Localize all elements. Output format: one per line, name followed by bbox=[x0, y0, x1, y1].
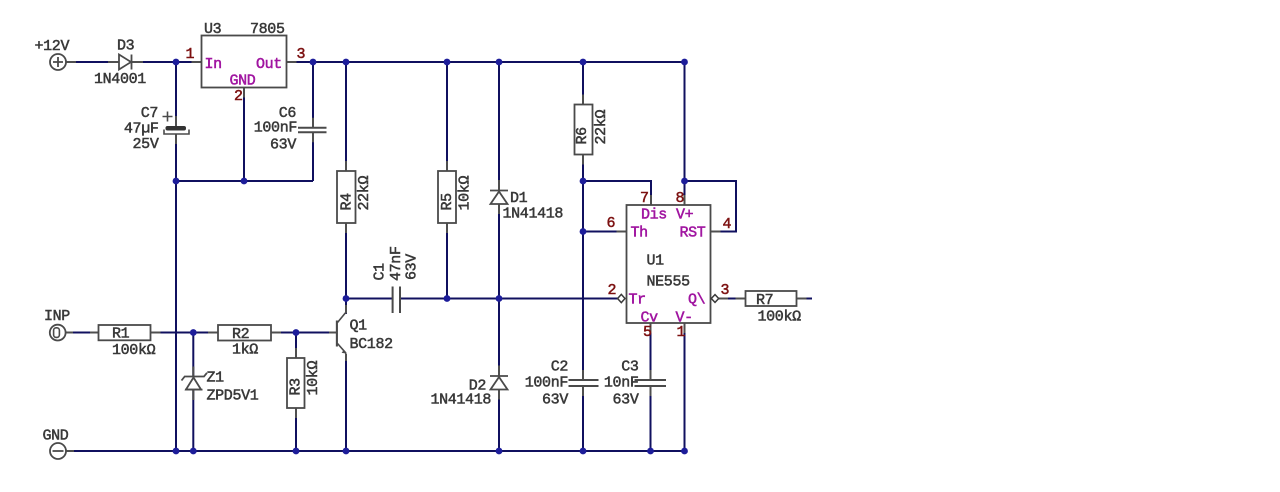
junction R3 base line bbox=[293, 329, 300, 336]
gray component pin stubs bbox=[66, 62, 807, 451]
svg-text:7805: 7805 bbox=[250, 21, 285, 38]
svg-text:25V: 25V bbox=[133, 136, 159, 153]
svg-text:8: 8 bbox=[676, 190, 685, 207]
capacitor C3 bbox=[635, 380, 667, 386]
wire R2 to Q1 base bbox=[271, 332, 337, 334]
svg-text:10nF: 10nF bbox=[604, 374, 639, 391]
wire Dis connection bbox=[583, 181, 651, 205]
svg-text:5: 5 bbox=[643, 324, 652, 341]
wire U3 GND pin down bbox=[243, 88, 245, 182]
capacitor C2 bbox=[569, 380, 599, 386]
wire R7 stub bbox=[797, 298, 813, 300]
svg-text:1: 1 bbox=[186, 46, 195, 63]
svg-text:1: 1 bbox=[677, 324, 686, 341]
svg-text:Dis: Dis bbox=[641, 207, 667, 224]
wire Tr line right of C1 bbox=[401, 298, 618, 300]
junction emitter ground rail bbox=[343, 448, 350, 455]
svg-text:R5: R5 bbox=[439, 193, 456, 211]
junction Th bbox=[580, 228, 587, 235]
svg-text:63V: 63V bbox=[404, 254, 421, 280]
svg-text:22kΩ: 22kΩ bbox=[593, 110, 610, 145]
IC U3 7805 regulator box bbox=[202, 36, 287, 88]
svg-text:C2: C2 bbox=[551, 359, 568, 376]
svg-text:U1: U1 bbox=[647, 253, 665, 270]
wire Q1 collector bbox=[345, 299, 347, 315]
wire vertical C7 ground column bbox=[175, 62, 177, 451]
junction R6 Dis bbox=[580, 178, 587, 185]
svg-text:63V: 63V bbox=[270, 137, 296, 154]
svg-text:C3: C3 bbox=[621, 359, 639, 376]
junction R4 C1 collector bbox=[343, 295, 350, 302]
svg-text:BC182: BC182 bbox=[350, 336, 393, 353]
ground GND symbol bbox=[50, 443, 66, 459]
svg-text:100kΩ: 100kΩ bbox=[758, 309, 802, 326]
IC U1 NE555 timer box bbox=[627, 205, 711, 323]
wire middle rail bbox=[176, 180, 313, 182]
power +12V symbol bbox=[50, 54, 66, 70]
junction D1 D2 Tr line bbox=[496, 295, 503, 302]
resistor R4 bbox=[337, 171, 356, 223]
svg-text:22kΩ: 22kΩ bbox=[356, 176, 373, 211]
svg-text:GND: GND bbox=[230, 73, 256, 90]
junction C3 ground rail bbox=[647, 448, 654, 455]
junction C6 top rail bbox=[310, 59, 317, 66]
node INP connector bbox=[50, 325, 66, 341]
svg-text:7: 7 bbox=[640, 190, 649, 207]
svg-text:D3: D3 bbox=[117, 38, 135, 55]
svg-text:63V: 63V bbox=[613, 392, 639, 409]
junction D1 top rail bbox=[496, 59, 503, 66]
junction D2 ground rail bbox=[496, 448, 503, 455]
svg-text:R6: R6 bbox=[574, 127, 591, 145]
junction R5 top rail bbox=[444, 59, 451, 66]
wire Tr line left of C1 bbox=[346, 298, 393, 300]
svg-text:R1: R1 bbox=[112, 326, 130, 343]
svg-text:C7: C7 bbox=[141, 105, 158, 122]
wire top rail right bbox=[287, 61, 685, 63]
svg-text:100nF: 100nF bbox=[525, 374, 568, 391]
svg-text:V+: V+ bbox=[676, 207, 694, 224]
svg-text:+12V: +12V bbox=[35, 38, 70, 55]
wire R3 column bbox=[295, 333, 297, 452]
wire C6 column bbox=[312, 62, 314, 181]
svg-text:1N41418: 1N41418 bbox=[430, 392, 491, 409]
svg-text:INP: INP bbox=[44, 308, 70, 325]
wire RST loop bbox=[685, 181, 737, 232]
wire Cv C3 column bbox=[650, 323, 652, 451]
wire D2 column bbox=[498, 299, 500, 452]
junction Z1 ground rail bbox=[190, 448, 197, 455]
svg-text:1N4001: 1N4001 bbox=[94, 71, 146, 88]
svg-text:3: 3 bbox=[721, 282, 730, 299]
svg-text:Z1: Z1 bbox=[207, 370, 225, 387]
junction C2 ground rail bbox=[580, 448, 587, 455]
wire top rail left bbox=[66, 61, 202, 63]
svg-text:GND: GND bbox=[43, 428, 69, 445]
svg-text:63V: 63V bbox=[542, 392, 568, 409]
wire R4 column bbox=[345, 62, 347, 299]
wire Th connection bbox=[583, 231, 627, 233]
svg-text:D1: D1 bbox=[510, 190, 528, 207]
junction C7 ground rail bbox=[173, 448, 180, 455]
resistor R6 bbox=[575, 105, 593, 155]
svg-text:2: 2 bbox=[234, 88, 243, 105]
resistor R2 bbox=[218, 325, 271, 341]
wire D1 column bbox=[498, 62, 500, 299]
wire bottom ground rail bbox=[66, 450, 685, 452]
node Tr inversion diamond bbox=[618, 294, 625, 302]
wire Q1 emitter bbox=[345, 354, 347, 452]
svg-text:1kΩ: 1kΩ bbox=[232, 342, 258, 359]
wire V+ column bbox=[684, 62, 686, 205]
svg-text:R7: R7 bbox=[756, 292, 773, 309]
svg-text:Q\: Q\ bbox=[688, 292, 706, 309]
svg-text:3: 3 bbox=[297, 46, 306, 63]
svg-text:Th: Th bbox=[631, 225, 648, 242]
junction R6 top rail bbox=[580, 59, 587, 66]
wire R6 C2 column bbox=[582, 62, 584, 451]
wire Z1 column bbox=[192, 333, 194, 452]
svg-text:10kΩ: 10kΩ bbox=[305, 361, 322, 396]
wire input to R1 bbox=[66, 332, 99, 334]
svg-text:47nF: 47nF bbox=[388, 246, 405, 281]
resistor R1 bbox=[99, 325, 151, 340]
svg-text:4: 4 bbox=[723, 216, 732, 233]
junction V- ground rail bbox=[681, 448, 688, 455]
svg-text:NE555: NE555 bbox=[647, 274, 691, 291]
resistor R3 bbox=[287, 358, 305, 408]
svg-text:1N41418: 1N41418 bbox=[503, 206, 564, 223]
junction R5 Tr line bbox=[444, 295, 451, 302]
junction C7 top rail bbox=[173, 59, 180, 66]
node Q inversion diamond bbox=[711, 295, 718, 303]
diode D2 bbox=[490, 376, 508, 390]
junction V+ RST bbox=[681, 178, 688, 185]
junction C7 mid rail bbox=[173, 178, 180, 185]
svg-text:R3: R3 bbox=[288, 378, 305, 396]
wire Q output to R7 bbox=[719, 298, 746, 300]
junction R4 top rail bbox=[343, 59, 350, 66]
svg-text:R4: R4 bbox=[339, 193, 356, 211]
wire V- column bbox=[684, 323, 686, 451]
transistor Q1 bbox=[337, 313, 346, 354]
svg-text:C1: C1 bbox=[372, 263, 389, 281]
junction V+ top rail bbox=[681, 59, 688, 66]
capacitor C1 bbox=[393, 287, 400, 314]
capacitor C6 bbox=[298, 128, 327, 133]
svg-text:Out: Out bbox=[256, 56, 282, 73]
svg-text:Tr: Tr bbox=[629, 292, 646, 309]
resistor R7 bbox=[746, 291, 797, 306]
svg-text:U3: U3 bbox=[204, 21, 222, 38]
capacitor C7 bbox=[163, 112, 190, 135]
svg-text:ZPD5V1: ZPD5V1 bbox=[207, 388, 259, 405]
diode D3 bbox=[119, 55, 132, 70]
svg-text:6: 6 bbox=[607, 215, 616, 232]
svg-text:47µF: 47µF bbox=[124, 121, 159, 138]
zener Z1 bbox=[182, 373, 208, 390]
svg-text:10kΩ: 10kΩ bbox=[457, 176, 474, 211]
svg-text:100kΩ: 100kΩ bbox=[112, 342, 156, 359]
diode D1 bbox=[490, 191, 508, 205]
svg-text:100nF: 100nF bbox=[254, 120, 297, 137]
svg-text:Q1: Q1 bbox=[350, 318, 368, 335]
svg-text:R2: R2 bbox=[232, 326, 249, 343]
svg-text:In: In bbox=[205, 56, 222, 73]
resistor R5 bbox=[438, 171, 456, 223]
svg-text:RST: RST bbox=[680, 225, 706, 242]
junction Z1 input line bbox=[190, 329, 197, 336]
junction U3 GND mid rail bbox=[241, 178, 248, 185]
junction R3 ground rail bbox=[293, 448, 300, 455]
svg-text:2: 2 bbox=[608, 282, 617, 299]
wire R1 to R2 bbox=[151, 332, 219, 334]
wire R5 column bbox=[446, 62, 448, 299]
